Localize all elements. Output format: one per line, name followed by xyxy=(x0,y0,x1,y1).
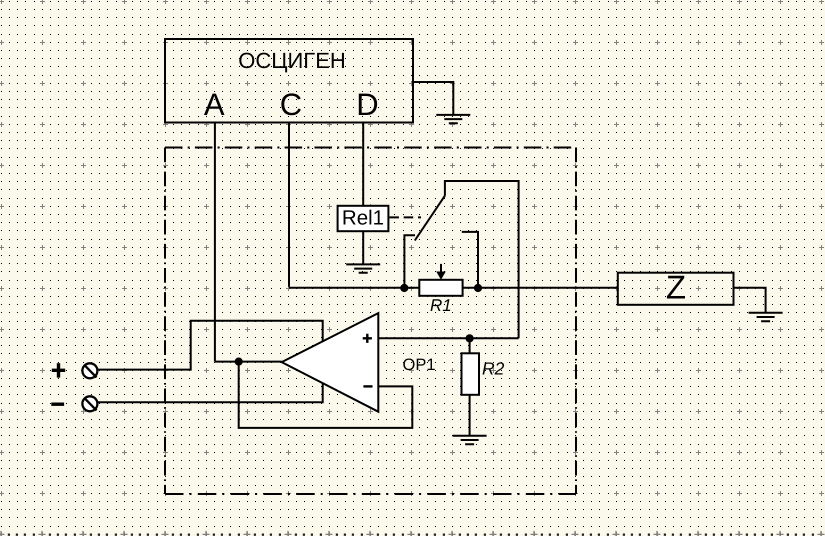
ground G1 (top right of generator box) xyxy=(436,115,470,123)
resistor R2 body xyxy=(462,353,480,395)
svg-text:OP1: OP1 xyxy=(403,356,436,374)
wire: plus terminal loop over op-amp xyxy=(98,321,323,370)
svg-text:R1: R1 xyxy=(430,296,452,315)
op-amp OP1 triangle xyxy=(282,313,379,412)
potentiometer R1 body xyxy=(419,280,462,296)
ground G2 (below Rel1) xyxy=(346,264,380,272)
switch right fixed contact xyxy=(462,232,478,288)
dashed enclosure box xyxy=(165,147,576,149)
svg-text:C: C xyxy=(280,87,302,122)
junction node at op-amp output xyxy=(235,358,243,366)
switch movable arm (diagonal) xyxy=(415,196,445,241)
switch left fixed contact xyxy=(404,235,415,288)
dashed link Rel1 to switch arm xyxy=(389,216,421,218)
svg-text:Z: Z xyxy=(666,269,686,306)
dashed enclosure right edge xyxy=(575,148,577,495)
junction node at R1 right xyxy=(474,284,482,292)
wire: Rel1 to ground G2 xyxy=(362,231,364,264)
wire: pin A down to op-amp xyxy=(214,123,216,362)
dashed enclosure left edge xyxy=(164,148,166,495)
relay Rel1 box xyxy=(338,206,389,231)
svg-text:ОСЦИГЕН: ОСЦИГЕН xyxy=(238,48,346,73)
svg-text:D: D xyxy=(356,87,378,122)
junction node at R1 left xyxy=(400,284,408,292)
wire: generator output to ground G1 xyxy=(413,82,453,114)
wire: R2 top stem xyxy=(469,338,471,353)
wire: pin D down to Rel1 xyxy=(362,123,364,206)
wire: pin C down to main node xyxy=(288,123,290,287)
bottom canvas edge bold grid row xyxy=(8,534,814,536)
plus terminal label xyxy=(52,363,65,377)
wire: non-inverting input to R2 node and switch branch xyxy=(378,337,518,339)
R1 wiper arrow xyxy=(440,264,442,273)
junction node at R2 top xyxy=(466,334,474,342)
ground G3 (below R2) xyxy=(453,436,487,444)
wire: R2 bottom stem to ground G3 xyxy=(469,395,471,436)
svg-text:R2: R2 xyxy=(482,359,505,379)
wire: main horizontal net (C node through R1 to Z) xyxy=(289,287,618,289)
svg-text:Rel1: Rel1 xyxy=(342,207,384,230)
load box Z xyxy=(618,273,734,305)
op-amp plus input mark xyxy=(363,334,372,343)
dashed enclosure bottom edge xyxy=(165,493,576,495)
wire: op-amp output / pin A node to apex xyxy=(215,361,282,363)
generator box ОСЦИГЕН xyxy=(165,39,413,123)
wire: feedback loop from output node to inverting input xyxy=(239,362,413,428)
wire: Z box to ground G4 xyxy=(734,288,766,313)
svg-text:A: A xyxy=(204,87,225,122)
wire: switch arm top over to R1 right branch xyxy=(445,181,519,338)
wire: minus terminal to op-amp lower edge xyxy=(98,384,323,403)
plus screw terminal xyxy=(82,363,97,378)
minus screw terminal xyxy=(82,396,97,411)
op-amp minus input mark xyxy=(363,385,372,387)
ground G4 (right of Z box) xyxy=(749,313,783,321)
minus terminal label xyxy=(51,403,64,406)
